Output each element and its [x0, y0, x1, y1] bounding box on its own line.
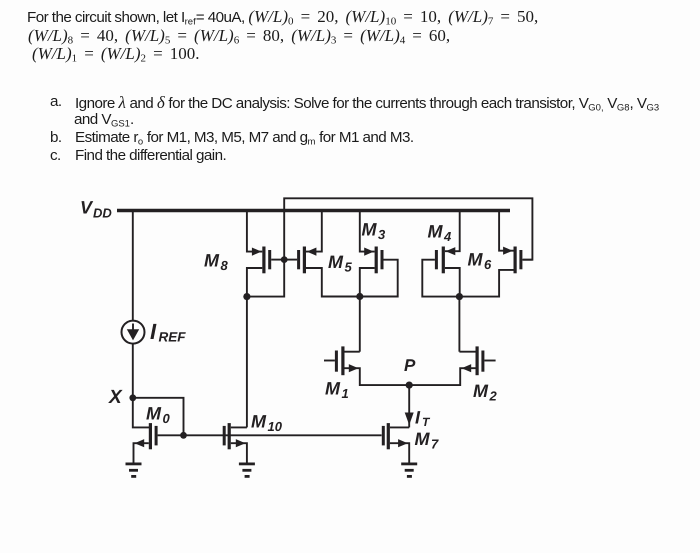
- transistor M10: [223, 423, 247, 462]
- label X: [108, 387, 123, 408]
- svg-text:M: M: [146, 404, 162, 424]
- svg-text:4: 4: [443, 229, 452, 244]
- list item a line 2: [74, 111, 134, 129]
- VDD rail: [117, 209, 510, 212]
- svg-text:7: 7: [431, 437, 439, 452]
- wire P down to M7 drain with IT current arrow: [405, 385, 414, 427]
- label IREF: [150, 319, 186, 345]
- svg-text:X: X: [108, 387, 123, 408]
- transistor M5: [284, 211, 360, 297]
- wire M8 gate node down to drain node: [247, 260, 284, 297]
- svg-text:10: 10: [268, 419, 283, 434]
- wire X down to M0 drain: [133, 398, 149, 428]
- node X junction dot: [129, 394, 136, 401]
- svg-text:3: 3: [378, 227, 386, 242]
- wire gate bus to M10 and M7 gates: [184, 434, 382, 436]
- problem statement line 2: [28, 26, 450, 47]
- current source IREF: [122, 321, 145, 344]
- ground at M10: [239, 463, 255, 478]
- ground at M7: [401, 463, 417, 478]
- transistor M1: [324, 346, 409, 385]
- list item a line 1: [50, 93, 62, 110]
- svg-text:DD: DD: [93, 205, 112, 220]
- label M5: [328, 252, 353, 275]
- list item b: [50, 129, 62, 146]
- list item c: [50, 147, 61, 164]
- svg-text:REF: REF: [159, 330, 187, 345]
- label M0: [146, 404, 171, 427]
- transistor M7: [382, 423, 409, 462]
- problem statement line 1: [27, 7, 538, 28]
- wire X to gate-bus corner: [133, 398, 184, 436]
- label M6: [468, 250, 493, 273]
- svg-text:M: M: [251, 412, 267, 432]
- svg-text:0: 0: [163, 411, 171, 426]
- svg-text:2: 2: [489, 389, 498, 404]
- svg-text:P: P: [404, 356, 416, 375]
- svg-text:I: I: [415, 408, 421, 428]
- svg-text:5: 5: [345, 260, 353, 275]
- wire gate bus to M0 gate: [158, 434, 184, 436]
- wire gate bus M8/M5 up and over to M6 gate (feedback wire): [284, 198, 532, 259]
- junction dot M8 drain node: [243, 293, 250, 300]
- transistor M8: [247, 211, 284, 297]
- label M10: [251, 412, 283, 435]
- svg-text:M: M: [473, 381, 489, 401]
- svg-text:M: M: [415, 429, 431, 449]
- label IT: [415, 408, 431, 430]
- svg-text:M: M: [362, 220, 378, 240]
- junction dot M8 gate node: [281, 256, 288, 263]
- transistor M2: [409, 346, 495, 385]
- junction dot node P: [406, 382, 413, 389]
- wire M8 drain node down to M10 drain: [246, 297, 248, 428]
- wire VDD to IREF: [132, 211, 134, 321]
- wire IREF to node X: [132, 343, 134, 398]
- svg-text:6: 6: [484, 257, 492, 272]
- svg-text:8: 8: [221, 258, 229, 273]
- problem statement line 3: [32, 44, 199, 65]
- label VDD: [80, 198, 112, 221]
- ground at M0: [126, 463, 142, 478]
- label M3: [362, 220, 387, 243]
- svg-text:V: V: [80, 198, 94, 218]
- label M7: [415, 429, 440, 452]
- svg-text:1: 1: [342, 386, 349, 401]
- label M1: [325, 379, 349, 402]
- label M8: [204, 251, 229, 274]
- svg-text:M: M: [428, 222, 444, 242]
- label node P: [404, 356, 416, 375]
- junction dot M4/M6 drain node: [456, 293, 463, 300]
- transistor M6: [459, 211, 532, 297]
- label M2: [473, 381, 498, 404]
- svg-text:M: M: [328, 252, 344, 272]
- svg-text:M: M: [468, 250, 484, 270]
- svg-text:M: M: [325, 379, 341, 399]
- svg-text:T: T: [422, 415, 431, 429]
- transistor M3: [360, 211, 398, 297]
- wire M3 node down to M1 drain: [359, 297, 361, 352]
- wire M4 node down to M2 drain: [458, 297, 460, 352]
- svg-text:I: I: [150, 319, 157, 344]
- svg-text:M: M: [204, 251, 220, 271]
- transistor M4: [422, 211, 459, 297]
- transistor M0: [134, 423, 158, 462]
- label M4: [428, 222, 453, 245]
- junction dot M3/M5 drain node: [356, 293, 363, 300]
- junction dot gate bus: [180, 432, 187, 439]
